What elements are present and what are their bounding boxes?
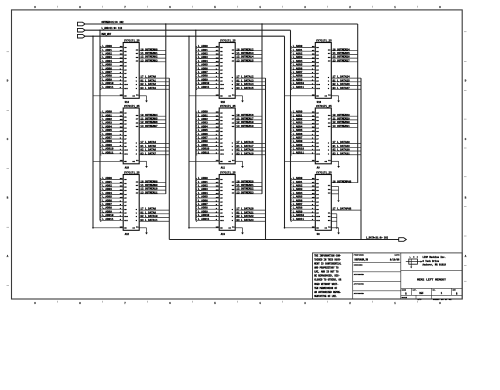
junction dots col2 — [188, 36, 189, 37]
wire OUTMEM04 pin — [139, 115, 166, 117]
svg-text:A13: A13 — [221, 233, 226, 236]
svg-text:U14: U14 — [125, 101, 130, 104]
wire OUTMEM top bus — [85, 23, 358, 25]
wire OUTMEM23 pin — [235, 193, 262, 195]
svg-text:L_ADR5: L_ADR5 — [293, 129, 303, 132]
svg-text:K/V: K/V — [418, 298, 423, 301]
wire CE tie-off arrow — [235, 95, 242, 97]
svg-text:THE INFORMATION CON-: THE INFORMATION CON- — [314, 254, 341, 257]
svg-text:02 L_DATA2: 02 L_DATA2 — [140, 83, 156, 86]
wire L_DATA1 pin — [139, 81, 169, 83]
wire L_ADR3 pin — [196, 190, 219, 192]
svg-text:01 L_DATA25: 01 L_DATA25 — [333, 79, 351, 82]
wire L_DATA5 pin — [139, 146, 169, 148]
svg-text:L_DATA<31:0> 302: L_DATA<31:0> 302 — [366, 236, 389, 239]
svg-text:13 OUTMEM31: 13 OUTMEM31 — [333, 125, 351, 128]
wire L_ADR4 pin — [101, 193, 124, 195]
svg-text:L_ADR2: L_ADR2 — [198, 184, 208, 187]
wire L_ADR5 pin — [101, 131, 124, 133]
wire L_ADR0 pin — [101, 112, 124, 114]
wire L_DATA12 pin — [235, 77, 265, 79]
svg-text:L_ADR7: L_ADR7 — [102, 203, 112, 206]
svg-text:12 OUTMEM10: 12 OUTMEM10 — [140, 188, 158, 191]
svg-text:18 OUTMEMPAR: 18 OUTMEMPAR — [333, 180, 352, 183]
sheet border frame — [12, 10, 463, 299]
wire L_ADR4 pin — [101, 61, 124, 63]
wire L_DATA2 pin — [139, 85, 169, 87]
svg-text:18 OUTMEM00: 18 OUTMEM00 — [140, 48, 158, 51]
svg-text:L_ADR8: L_ADR8 — [102, 140, 112, 143]
wire L_ADR9 pin — [291, 80, 315, 82]
wire L_ADR trunk col1 — [99, 30, 101, 220]
wire L_ADR3 pin — [196, 58, 219, 60]
svg-text:17 L_DATA20: 17 L_DATA20 — [236, 208, 254, 211]
svg-text:17 L_DATA4: 17 L_DATA4 — [140, 141, 156, 144]
wire L_ADR top bus — [85, 29, 290, 31]
wire OUTMEM28 pin — [331, 115, 357, 117]
svg-text:L_ADR0: L_ADR0 — [102, 177, 112, 180]
svg-text:L_ADR6: L_ADR6 — [102, 199, 112, 202]
wire L_ADR1 pin — [291, 50, 315, 52]
wire L_ADR10 pin — [101, 84, 124, 86]
svg-text:L_ADR1: L_ADR1 — [102, 49, 112, 52]
wire L_ADR6 pin — [196, 69, 219, 71]
svg-text:L_ADR5: L_ADR5 — [293, 64, 303, 67]
svg-text:L_ADR1: L_ADR1 — [293, 49, 303, 52]
wire L_ADR3 pin — [291, 190, 315, 192]
wire L_ADR10 pin — [101, 149, 124, 151]
wire L_DATA7 pin — [139, 154, 169, 156]
wire L_ADR6 pin — [101, 134, 124, 136]
svg-text:L_ADR4: L_ADR4 — [102, 60, 112, 63]
svg-text:L_ADR8: L_ADR8 — [102, 207, 112, 210]
svg-text:L_ADR4: L_ADR4 — [198, 192, 208, 195]
svg-text:03 L_DATA27: 03 L_DATA27 — [333, 87, 351, 90]
wire OUTMEM31 pin — [331, 126, 357, 128]
wire WE pin to MEM_WRT trunk — [285, 95, 316, 97]
svg-text:L_ADR0: L_ADR0 — [198, 45, 208, 48]
wire L_ADR11 pin — [196, 153, 219, 155]
wire L_ADR7 pin — [196, 72, 219, 74]
svg-text:11 OUTMEM17: 11 OUTMEM17 — [236, 117, 254, 120]
wire OUTMEM15 pin — [235, 61, 262, 63]
svg-text:18 OUTMEM08: 18 OUTMEM08 — [140, 180, 158, 183]
wire L_ADR10 pin — [101, 216, 124, 218]
svg-text:L_ADR8: L_ADR8 — [198, 75, 208, 78]
svg-text:L_ADR3: L_ADR3 — [102, 122, 112, 125]
svg-text:L_ADR8: L_ADR8 — [293, 207, 303, 210]
svg-text:L_ADR7: L_ADR7 — [293, 203, 303, 206]
svg-text:13 OUTMEM19: 13 OUTMEM19 — [236, 125, 254, 128]
wire OUTMEM30 pin — [331, 123, 357, 125]
svg-text:L_ADR7: L_ADR7 — [102, 137, 112, 140]
wire OUTMEM03 pin — [139, 61, 166, 63]
wire L_DATA trunk col1 — [168, 78, 170, 239]
wire L_ADR10 pin — [196, 149, 219, 151]
svg-text:12 OUTMEM30: 12 OUTMEM30 — [333, 121, 351, 124]
wire L_ADR7 pin — [291, 138, 315, 140]
wire OUTMEM12 pin — [235, 50, 262, 52]
wire L_ADR6 pin — [291, 134, 315, 136]
svg-text:17 L_DATA16: 17 L_DATA16 — [236, 141, 254, 144]
svg-text:L_ADR11: L_ADR11 — [198, 218, 210, 221]
wire L_ADR11 pin — [196, 87, 219, 89]
wire L_ADR9 pin — [291, 145, 315, 147]
wire OUTMEM14 pin — [235, 57, 262, 59]
svg-text:L_ADR7: L_ADR7 — [198, 71, 208, 74]
svg-text:U15: U15 — [221, 101, 226, 104]
svg-text:PREPARED: PREPARED — [354, 254, 365, 257]
wire L_DATA22 pin — [235, 217, 265, 219]
wire L_ADR6 pin — [196, 201, 219, 203]
bus entry flag L_ADR<11:0> — [78, 28, 86, 32]
svg-text:L_ADR11: L_ADR11 — [102, 86, 114, 89]
wire L_ADR4 pin — [291, 127, 315, 129]
scale/sheet row — [415, 295, 417, 299]
wire L_DATA21 pin — [235, 213, 265, 215]
wire L_ADR5 pin — [101, 197, 124, 199]
svg-text:L_ADR10: L_ADR10 — [198, 82, 210, 85]
wire L_ADR2 pin — [291, 54, 315, 56]
wire L_ADR4 pin — [196, 127, 219, 129]
svg-text:TAINED IN THIS DOCU-: TAINED IN THIS DOCU- — [314, 258, 341, 261]
wire L_DATA0 pin — [139, 77, 169, 79]
wire L_DATA18 pin — [235, 150, 265, 152]
wire CE tie-off arrow — [139, 227, 146, 229]
wire L_ADR2 pin — [196, 186, 219, 188]
wire L_DATA9 pin — [139, 213, 169, 215]
svg-text:U16: U16 — [317, 101, 322, 104]
wire OUTMEMPAR pin — [331, 182, 357, 184]
svg-text:02 L_DATA14: 02 L_DATA14 — [236, 83, 254, 86]
svg-text:L_ADR9: L_ADR9 — [102, 144, 112, 147]
wire L_ADR4 pin — [101, 127, 124, 129]
svg-text:L_ADR11: L_ADR11 — [293, 218, 305, 221]
wire L_ADR3 pin — [101, 123, 124, 125]
wire L_ADR10 pin — [196, 84, 219, 86]
wire L_ADR11 pin — [101, 153, 124, 155]
wire L_ADR8 pin — [196, 142, 219, 144]
wire L_DATA26 pin — [331, 85, 361, 87]
wire L_DATA23 pin — [235, 220, 265, 222]
svg-text:03 L_DATA11: 03 L_DATA11 — [140, 219, 158, 222]
wire MEM_WRT trunk col2 — [188, 36, 190, 228]
wire L_ADR0 pin — [101, 47, 124, 49]
svg-text:L_ADR1: L_ADR1 — [293, 181, 303, 184]
svg-text:12 OUTMEM26: 12 OUTMEM26 — [333, 56, 351, 59]
wire L_ADR5 pin — [291, 197, 315, 199]
company cell — [401, 269, 462, 271]
wire OUTMEM08 pin — [139, 182, 166, 184]
svg-text:L_ADR10: L_ADR10 — [102, 148, 114, 151]
svg-text:L_ADR5: L_ADR5 — [102, 129, 112, 132]
svg-text:APPROVED: APPROVED — [354, 273, 365, 276]
wire OUTMEM20 pin — [235, 182, 262, 184]
wire WE pin to MEM_WRT trunk — [285, 160, 316, 162]
svg-text:CY7C171_25: CY7C171_25 — [124, 39, 140, 42]
svg-text:A11: A11 — [221, 166, 226, 169]
wire L_ADR1 pin — [196, 182, 219, 184]
svg-text:L_ADR8: L_ADR8 — [102, 75, 112, 78]
wire L_ADR4 pin — [196, 61, 219, 63]
wire OUTMEM11 pin — [139, 193, 166, 195]
svg-text:12 OUTMEM14: 12 OUTMEM14 — [236, 56, 254, 59]
svg-text:L_ADR8: L_ADR8 — [198, 140, 208, 143]
wire L_ADR0 pin — [291, 47, 315, 49]
svg-text:03 L_DATA15: 03 L_DATA15 — [236, 87, 254, 90]
wire OUTMEM17 pin — [235, 119, 262, 121]
svg-text:L_ADR0: L_ADR0 — [293, 111, 303, 114]
svg-text:12 OUTMEM18: 12 OUTMEM18 — [236, 121, 254, 124]
wire L_ADR0 pin — [291, 179, 315, 181]
wire L_DATA15 pin — [235, 88, 265, 90]
svg-text:L_ADR4: L_ADR4 — [293, 192, 303, 195]
wire L_ADR3 pin — [196, 123, 219, 125]
svg-text:L_ADR1: L_ADR1 — [198, 49, 208, 52]
svg-text:L_ADR1: L_ADR1 — [198, 114, 208, 117]
wire L_ADR2 pin — [101, 119, 124, 121]
svg-text:11 OUTMEM29: 11 OUTMEM29 — [333, 117, 351, 120]
svg-text:03 L_DATA19: 03 L_DATA19 — [236, 152, 254, 155]
wire L_DATA31 pin — [331, 154, 361, 156]
svg-text:L_ADR6: L_ADR6 — [102, 133, 112, 136]
svg-text:MEM2 LEFT MEMORY: MEM2 LEFT MEMORY — [417, 279, 446, 282]
wire L_DATA19 pin — [235, 154, 265, 156]
svg-text:L_ADR9: L_ADR9 — [102, 78, 112, 81]
svg-text:APPROVED: APPROVED — [354, 282, 365, 285]
wire L_ADR9 pin — [291, 212, 315, 214]
svg-text:SCALE: SCALE — [402, 296, 407, 299]
svg-text:L_ADR10: L_ADR10 — [198, 214, 210, 217]
svg-text:L_ADR9: L_ADR9 — [102, 210, 112, 213]
wire L_ADR7 pin — [101, 72, 124, 74]
wire MEM_WRT trunk col3 — [284, 36, 286, 228]
svg-text:13 OUTMEM23: 13 OUTMEM23 — [236, 191, 254, 194]
wire OUTMEM06 pin — [139, 123, 166, 125]
svg-text:18 OUTMEM16: 18 OUTMEM16 — [236, 114, 254, 117]
svg-text:18 OUTMEM28: 18 OUTMEM28 — [333, 114, 351, 117]
wire MEM_WRT trunk col1 — [92, 36, 94, 228]
svg-text:17 L_DATA0: 17 L_DATA0 — [140, 76, 156, 79]
svg-text:L_ADR3: L_ADR3 — [198, 188, 208, 191]
svg-text:01 L_DATA21: 01 L_DATA21 — [236, 211, 254, 214]
svg-text:SENTATIVE OF LMI.: SENTATIVE OF LMI. — [314, 295, 337, 298]
wire L_ADR7 pin — [196, 204, 219, 206]
bus entry flag OUTMEM<31:0> — [78, 22, 86, 26]
svg-text:CLOSED TO OTHERS, OR: CLOSED TO OTHERS, OR — [314, 279, 342, 282]
wire CE tie-off arrow — [331, 227, 338, 229]
svg-text:11 OUTMEM21: 11 OUTMEM21 — [236, 184, 254, 187]
svg-text:13 OUTMEM03: 13 OUTMEM03 — [140, 59, 158, 62]
svg-text:NO.: NO. — [433, 290, 436, 292]
svg-text:L_ADR9: L_ADR9 — [293, 210, 303, 213]
wire L_ADR6 pin — [101, 69, 124, 71]
svg-text:11 OUTMEM25: 11 OUTMEM25 — [333, 52, 351, 55]
wire L_ADR8 pin — [291, 142, 315, 144]
svg-text:L_ADR6: L_ADR6 — [293, 67, 303, 70]
svg-text:L_ADR2: L_ADR2 — [102, 52, 112, 55]
wire L_ADR2 pin — [101, 186, 124, 188]
svg-text:L_ADR2: L_ADR2 — [293, 118, 303, 121]
wire OUTMEM trunk col2 — [261, 24, 263, 194]
wire OUTMEM02 pin — [139, 57, 166, 59]
svg-text:DATE: DATE — [395, 254, 401, 257]
wire OUTMEM25 pin — [331, 53, 357, 55]
svg-text:02 L_DATA26: 02 L_DATA26 — [333, 83, 351, 86]
title block outline — [313, 253, 463, 299]
wire L_ADR8 pin — [291, 76, 315, 78]
wire L_DATA3 pin — [139, 88, 169, 90]
svg-text:L_ADR5: L_ADR5 — [198, 196, 208, 199]
wire L_DATA trunk col3 — [360, 78, 362, 239]
wire L_ADR9 pin — [101, 145, 124, 147]
wire L_ADR11 pin — [101, 219, 124, 221]
wire L_ADR5 pin — [291, 131, 315, 133]
svg-text:L_ADR7: L_ADR7 — [198, 203, 208, 206]
svg-text:L_ADR5: L_ADR5 — [198, 129, 208, 132]
wire L_DATA trunk col2 — [265, 78, 267, 239]
svg-text:12 OUTMEM06: 12 OUTMEM06 — [140, 121, 158, 124]
wire WE pin to MEM_WRT trunk — [189, 160, 219, 162]
wire L_ADR0 pin — [291, 112, 315, 114]
wire L_ADR trunk col3 — [290, 30, 292, 220]
wire L_ADR4 pin — [196, 193, 219, 195]
svg-text:L_ADR3: L_ADR3 — [102, 56, 112, 59]
svg-text:11 OUTMEM13: 11 OUTMEM13 — [236, 52, 254, 55]
svg-text:L_ADR0: L_ADR0 — [102, 45, 112, 48]
svg-text:AND PROPRIETARY TO: AND PROPRIETARY TO — [314, 267, 339, 270]
svg-text:01 L_DATA13: 01 L_DATA13 — [236, 79, 254, 82]
svg-text:USED WITHOUT WRIT-: USED WITHOUT WRIT- — [314, 283, 338, 286]
tie-off unused outputs — [331, 185, 338, 187]
svg-text:L_ADR2: L_ADR2 — [198, 52, 208, 55]
wire WE pin to MEM_WRT trunk — [93, 227, 123, 229]
wire OUTMEM19 pin — [235, 126, 262, 128]
svg-text:03 L_DATA7: 03 L_DATA7 — [140, 152, 156, 155]
svg-text:6 Tech Drive: 6 Tech Drive — [423, 260, 440, 263]
svg-text:01 L_DATA17: 01 L_DATA17 — [236, 145, 254, 148]
svg-text:03 L_DATA31: 03 L_DATA31 — [333, 152, 351, 155]
wire L_ADR4 pin — [291, 61, 315, 63]
svg-text:L_ADR9: L_ADR9 — [293, 78, 303, 81]
svg-text:SHEET 25 OF 41: SHEET 25 OF 41 — [433, 298, 452, 301]
svg-text:L_ADR0: L_ADR0 — [293, 45, 303, 48]
bus entry flag MEM_WRT — [78, 34, 86, 38]
svg-text:L_ADR1: L_ADR1 — [102, 181, 112, 184]
svg-text:L_ADR6: L_ADR6 — [293, 133, 303, 136]
wire L_ADR1 pin — [101, 50, 124, 52]
wire OUTMEM07 pin — [139, 126, 166, 128]
svg-text:L_ADR11: L_ADR11 — [293, 86, 305, 89]
svg-text:CY7C171_25: CY7C171_25 — [220, 39, 236, 42]
wire L_DATA4 pin — [139, 143, 169, 145]
svg-text:11 OUTMEM05: 11 OUTMEM05 — [140, 117, 158, 120]
svg-text:L_ADR5: L_ADR5 — [102, 196, 112, 199]
wire L_ADR1 pin — [291, 182, 315, 184]
wire L_ADR0 pin — [196, 179, 219, 181]
wire L_ADR11 pin — [196, 219, 219, 221]
svg-text:L M I: L M I — [410, 256, 419, 259]
wire OUTMEM18 pin — [235, 123, 262, 125]
svg-text:A12: A12 — [125, 233, 130, 236]
wire L_DATA10 pin — [139, 217, 169, 219]
svg-text:02 L_DATA18: 02 L_DATA18 — [236, 149, 254, 152]
svg-text:L_ADR3: L_ADR3 — [102, 188, 112, 191]
wire CE tie-off arrow — [331, 160, 338, 162]
wire L_ADR3 pin — [101, 58, 124, 60]
svg-text:L_ADR6: L_ADR6 — [198, 133, 208, 136]
svg-text:L_ADR10: L_ADR10 — [293, 82, 305, 85]
wire L_DATA20 pin — [235, 209, 265, 211]
wire MEM_WRT top bus — [85, 35, 284, 37]
wire L_ADR9 pin — [101, 80, 124, 82]
wire OUTMEM16 pin — [235, 115, 262, 117]
wire WE pin to MEM_WRT trunk — [285, 227, 316, 229]
svg-text:APPROVED: APPROVED — [354, 292, 365, 295]
sheet title — [401, 287, 462, 289]
bus exit flag L_DATA<31:0> — [399, 238, 407, 242]
wire L_DATA28 pin — [331, 143, 361, 145]
svg-text:L_ADR7: L_ADR7 — [198, 137, 208, 140]
svg-text:L_ADR4: L_ADR4 — [102, 192, 112, 195]
wire L_ADR7 pin — [291, 72, 315, 74]
svg-text:L_ADR2: L_ADR2 — [198, 118, 208, 121]
wire WE pin to MEM_WRT trunk — [189, 95, 219, 97]
wire L_ADR10 pin — [291, 84, 315, 86]
wire L_ADR2 pin — [196, 119, 219, 121]
wire L_ADR6 pin — [291, 69, 315, 71]
svg-text:L_ADR7: L_ADR7 — [293, 71, 303, 74]
svg-text:L_ADR7: L_ADR7 — [102, 71, 112, 74]
wire L_ADR9 pin — [196, 80, 219, 82]
svg-text:AN AUTHORIZED REPRE-: AN AUTHORIZED REPRE- — [314, 291, 341, 294]
wire L_ADR5 pin — [196, 131, 219, 133]
wire L_ADR4 pin — [291, 193, 315, 195]
svg-text:L_ADR0: L_ADR0 — [198, 177, 208, 180]
junction dots col1 — [92, 36, 93, 37]
svg-text:L_ADR11: L_ADR11 — [102, 218, 114, 221]
svg-text:CAT.: CAT. — [413, 289, 417, 292]
wire L_ADR8 pin — [196, 76, 219, 78]
wire OUTMEM29 pin — [331, 119, 357, 121]
svg-text:18 OUTMEM20: 18 OUTMEM20 — [236, 180, 254, 183]
svg-text:02 L_DATA10: 02 L_DATA10 — [140, 215, 158, 218]
svg-text:L_ADR4: L_ADR4 — [198, 60, 208, 63]
wire L_ADR0 pin — [101, 179, 124, 181]
wire L_DATA25 pin — [331, 81, 361, 83]
svg-text:L_ADR6: L_ADR6 — [102, 67, 112, 70]
svg-text:L_ADR9: L_ADR9 — [198, 210, 208, 213]
svg-text:L_ADR3: L_ADR3 — [198, 122, 208, 125]
wire OUTMEM01 pin — [139, 53, 166, 55]
svg-text:17 L_DATA8: 17 L_DATA8 — [140, 208, 156, 211]
svg-text:8/19/86: 8/19/86 — [390, 258, 400, 261]
svg-text:L_ADR11: L_ADR11 — [293, 151, 305, 154]
svg-text:11 OUTMEM09: 11 OUTMEM09 — [140, 184, 158, 187]
wire L_ADR10 pin — [291, 149, 315, 151]
svg-text:SIZE: SIZE — [402, 290, 406, 292]
svg-text:18 OUTMEM12: 18 OUTMEM12 — [236, 48, 254, 51]
wire L_ADR8 pin — [101, 142, 124, 144]
svg-text:02 L_DATA6: 02 L_DATA6 — [140, 149, 156, 152]
wire L_ADR1 pin — [291, 116, 315, 118]
wire L_ADR5 pin — [101, 65, 124, 67]
svg-text:L_ADR10: L_ADR10 — [102, 214, 114, 217]
wire L_ADR9 pin — [101, 212, 124, 214]
wire L_ADR3 pin — [291, 123, 315, 125]
wire L_ADR10 pin — [196, 216, 219, 218]
svg-text:A10: A10 — [125, 166, 130, 169]
